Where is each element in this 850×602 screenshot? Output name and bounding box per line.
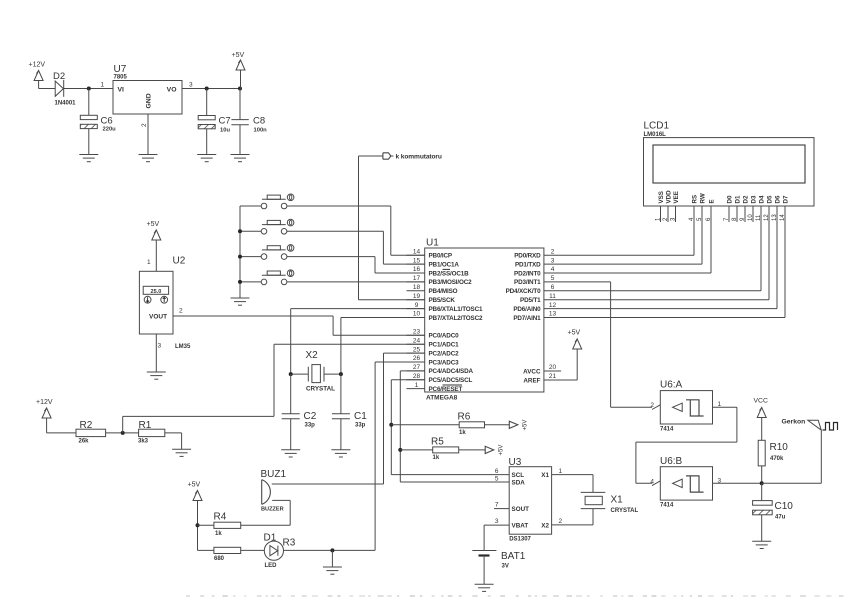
output port +5V (R5): [485, 445, 504, 456]
pin 16 PB2/SS/OC1B (U1 left stub): [407, 266, 470, 277]
pin 14 PB0/ICP (U1 left stub): [407, 248, 452, 259]
wire (U6:B pin3 to gerkon node): [713, 482, 762, 484]
ground (C10): [761, 540, 763, 542]
node (R6 tap): [389, 423, 393, 427]
pin 23 PC0/ADC0 (U1 left stub): [407, 329, 460, 340]
pin 12 PD6/AIN0 (U1 right stub): [513, 302, 562, 313]
svg-text:RW: RW: [700, 193, 707, 203]
pin 2 PD0/RXD (U1 right stub): [514, 248, 562, 259]
svg-text:10: 10: [748, 214, 754, 221]
svg-text:SOUT: SOUT: [512, 506, 530, 513]
svg-text:33p: 33p: [305, 423, 316, 429]
ground (C6): [88, 153, 90, 155]
svg-text:1k: 1k: [433, 455, 440, 461]
pin 1 PC6/RESET (U1 left stub): [407, 382, 463, 393]
wire (crystal to U3 X2): [592, 509, 594, 525]
wire (U3 X1 to crystal): [552, 474, 593, 476]
pin 20 AVCC (U1): [523, 364, 561, 375]
svg-text:D5: D5: [767, 195, 774, 203]
node (X2 right): [339, 372, 343, 376]
svg-text:3: 3: [158, 343, 162, 350]
ground (C7): [206, 153, 208, 155]
svg-text:C2: C2: [304, 411, 317, 422]
push button SW2: [261, 219, 294, 234]
regulator U7 7805: [113, 64, 182, 114]
node (R5 tap): [398, 448, 402, 452]
wire (SCL bus to U3): [391, 474, 509, 476]
pin 14 D7 (LCD1): [780, 195, 790, 222]
svg-text:1: 1: [559, 468, 563, 475]
pin 9 D2 (LCD1): [740, 195, 750, 222]
decorative: none: [186, 596, 844, 597]
wire (U2 pin3 to ground): [155, 334, 157, 372]
pin 13 D6 (LCD1): [772, 195, 782, 222]
power flag +5V (regulator output): [232, 52, 246, 89]
wire: [47, 432, 76, 434]
svg-text:PB0/ICP: PB0/ICP: [429, 253, 452, 260]
svg-text:R4: R4: [214, 512, 227, 523]
wire (SW1 to PB0): [287, 205, 391, 207]
svg-text:ATMEGA8: ATMEGA8: [426, 395, 458, 402]
pin 9 PB6/XTAL1/TOSC1 (U1 left stub): [407, 302, 484, 313]
wire (U6:A pin1 to U6:B pin4): [713, 406, 737, 408]
node (bus row3): [238, 255, 242, 259]
pin 13 PD7/AIN1 (U1 right stub): [513, 311, 562, 322]
svg-text:220u: 220u: [103, 127, 117, 133]
svg-text:PB3/MOSI/OC2: PB3/MOSI/OC2: [429, 279, 473, 286]
svg-text:VO: VO: [167, 87, 177, 94]
svg-text:U6:A: U6:A: [660, 380, 683, 391]
svg-text:1: 1: [147, 259, 151, 266]
svg-text:15: 15: [413, 257, 421, 264]
ground (C2): [290, 449, 292, 451]
wire (node to PC3/ADC3): [374, 362, 376, 550]
wire (LCD RS to PD0): [693, 222, 695, 255]
svg-text:BUZ1: BUZ1: [261, 469, 287, 480]
node (R10/C10/U6:B): [760, 481, 764, 485]
pin 12 D5 (LCD1): [764, 195, 774, 222]
svg-text:6: 6: [551, 284, 555, 291]
wire (+5V rail): [182, 88, 240, 90]
wire (SW3 to PB2): [287, 256, 375, 258]
pin 15 PB1/OC1A (U1 left stub): [407, 257, 460, 268]
svg-text:PC6/RESET: PC6/RESET: [429, 386, 463, 393]
svg-text:C7: C7: [219, 116, 231, 127]
svg-text:X2: X2: [541, 523, 549, 530]
svg-text:D7: D7: [783, 195, 790, 203]
svg-text:D0: D0: [727, 195, 734, 203]
pin 6 PD4/XCK/T0 (U1 right stub): [506, 284, 563, 295]
diode D2: [53, 71, 76, 107]
svg-text:VBAT: VBAT: [512, 523, 529, 530]
wire (LCD D6 to PD6): [776, 222, 778, 309]
wire (PB5/SCK to kommutator port): [358, 156, 360, 300]
svg-text:Gerkon: Gerkon: [782, 419, 806, 426]
svg-text:11: 11: [549, 293, 556, 300]
svg-text:R2: R2: [80, 420, 93, 431]
pin 7 SOUT stub U3: [494, 502, 509, 509]
svg-text:+5V: +5V: [147, 221, 160, 228]
svg-text:PC4/ADC4/SDA: PC4/ADC4/SDA: [429, 368, 474, 375]
wire (button left to bus): [240, 281, 261, 283]
output port +5V (R6): [509, 420, 528, 431]
svg-text:16: 16: [413, 266, 421, 273]
wire (node to gerkon input): [762, 482, 822, 484]
ground (C1): [340, 449, 342, 451]
svg-text:12: 12: [764, 214, 770, 221]
svg-text:LCD1: LCD1: [644, 121, 670, 132]
node (divider tap): [121, 431, 125, 435]
resistor R2: [76, 420, 106, 444]
resistor R4: [198, 512, 241, 537]
node (bus row4): [238, 280, 242, 284]
svg-text:11: 11: [756, 214, 762, 221]
svg-text:25: 25: [413, 346, 421, 353]
svg-text:AVCC: AVCC: [523, 368, 541, 375]
svg-text:PD5/T1: PD5/T1: [520, 297, 541, 304]
svg-text:AREF: AREF: [523, 377, 540, 384]
svg-text:PC2/ADC2: PC2/ADC2: [429, 350, 460, 357]
power flag VCC: [754, 398, 768, 441]
svg-text:PC5/ADC5/SCL: PC5/ADC5/SCL: [429, 377, 473, 384]
svg-text:BAT1: BAT1: [501, 551, 526, 562]
svg-text:BUZZER: BUZZER: [261, 507, 284, 513]
svg-text:2: 2: [559, 518, 563, 525]
svg-text:PD6/AIN0: PD6/AIN0: [513, 306, 541, 313]
wire: [106, 432, 139, 434]
pin 19 PB5/SCK (U1 left stub): [407, 293, 456, 304]
svg-text:17: 17: [413, 275, 421, 282]
svg-text:5: 5: [551, 275, 555, 282]
svg-text:14: 14: [780, 214, 786, 221]
svg-text:470k: 470k: [770, 456, 784, 462]
svg-text:100n: 100n: [254, 128, 268, 134]
node (+5V R4 tap): [196, 523, 200, 527]
wire (button left to bus): [240, 256, 261, 258]
capacitor C10: [753, 483, 794, 541]
svg-text:+5V: +5V: [188, 482, 201, 489]
svg-text:PB5/SCK: PB5/SCK: [429, 297, 456, 304]
svg-text:26: 26: [413, 355, 421, 362]
svg-text:2: 2: [141, 123, 148, 127]
svg-text:+5V: +5V: [568, 330, 581, 337]
svg-text:R1: R1: [139, 420, 152, 431]
svg-text:GND: GND: [146, 93, 153, 108]
buzzer BUZ1: [261, 469, 287, 513]
node (LED/ground/PC3): [330, 548, 334, 552]
ground (U2): [155, 371, 157, 373]
svg-text:4: 4: [551, 266, 555, 273]
wire (R4 to buzzer): [241, 524, 291, 526]
svg-text:1k: 1k: [459, 430, 466, 436]
capacitor C6: [80, 89, 116, 155]
svg-text:1k: 1k: [215, 531, 222, 537]
svg-text:19: 19: [413, 293, 421, 300]
pin 10 D3 (LCD1): [748, 195, 758, 222]
pin 1 VSS (LCD1): [655, 191, 665, 222]
wire (node to ground): [331, 550, 333, 567]
svg-text:3: 3: [495, 518, 499, 525]
svg-text:13: 13: [549, 311, 557, 318]
display LCD1 LM016L: [644, 121, 815, 207]
node (C8/+5V): [238, 87, 242, 91]
svg-text:U3: U3: [509, 457, 522, 468]
push button SW4: [261, 270, 294, 285]
capacitor C7: [198, 89, 230, 155]
svg-text:X2: X2: [306, 350, 319, 361]
wire (LED to node): [284, 549, 376, 551]
svg-text:3k3: 3k3: [138, 438, 149, 444]
wire (R1 to ground): [165, 432, 182, 434]
capacitor C8: [231, 89, 267, 155]
svg-text:PC0/ADC0: PC0/ADC0: [429, 333, 460, 340]
svg-text:47u: 47u: [775, 515, 786, 521]
pin 7 D0 (LCD1): [724, 195, 734, 222]
wire (PC5/SCL down): [391, 379, 424, 381]
push button SW3: [261, 245, 294, 260]
push button SW1: [261, 194, 294, 209]
power flag +12V (input): [29, 62, 46, 89]
wire: [39, 88, 56, 90]
svg-text:U6:B: U6:B: [660, 456, 683, 467]
svg-text:X1: X1: [611, 495, 624, 506]
resistor R3 680: [198, 547, 265, 562]
power flag +12V (divider): [36, 399, 53, 433]
svg-text:D4: D4: [759, 195, 766, 203]
svg-text:C10: C10: [775, 501, 794, 512]
inverter U6:B 7414: [660, 456, 713, 509]
svg-text:680: 680: [214, 556, 225, 562]
wire (SDA bus to U3): [400, 481, 509, 483]
wire (LCD D7 to PD7): [784, 222, 786, 318]
pin 26 PC3/ADC3 (U1 left stub): [407, 355, 460, 366]
svg-text:PD0/RXD: PD0/RXD: [514, 253, 541, 260]
ground (R1): [181, 448, 183, 450]
svg-text:+12V: +12V: [29, 62, 46, 69]
svg-text:14: 14: [413, 248, 421, 255]
svg-text:R3: R3: [283, 537, 296, 548]
svg-text:LED: LED: [265, 563, 278, 569]
svg-text:3: 3: [189, 82, 193, 89]
svg-text:CRYSTAL: CRYSTAL: [306, 386, 335, 393]
ground (LED): [331, 566, 333, 568]
wire (PD3/INT1 to U6:A output): [563, 281, 611, 283]
svg-text:C1: C1: [354, 411, 367, 422]
svg-text:23: 23: [413, 329, 421, 336]
svg-text:X1: X1: [541, 472, 549, 479]
svg-text:VI: VI: [118, 87, 125, 94]
svg-text:1N4001: 1N4001: [55, 101, 77, 107]
svg-text:2: 2: [551, 248, 555, 255]
svg-text:PB1/OC1A: PB1/OC1A: [429, 261, 460, 268]
svg-text:13: 13: [772, 214, 778, 221]
resistor R1: [138, 420, 165, 444]
pin 11 PD5/T1 (U1 right stub): [520, 293, 562, 304]
wire (LM35 VOUT to PC0/ADC0): [173, 315, 333, 317]
pin 10 PB7/XTAL2/TOSC2 (U1 left stub): [407, 311, 484, 322]
wire (button left to bus): [240, 230, 261, 232]
svg-text:PD3/INT1: PD3/INT1: [514, 279, 541, 286]
node (D2/C6/U7 junction): [87, 87, 91, 91]
svg-text:D1: D1: [735, 195, 742, 203]
svg-text:D6: D6: [775, 195, 782, 203]
svg-text:U2: U2: [173, 256, 186, 267]
svg-text:U1: U1: [426, 238, 439, 249]
pin 4 PD2/INT0 (U1 right stub): [514, 266, 562, 277]
svg-text:C6: C6: [101, 116, 113, 127]
svg-text:PB2/SS/OC1B: PB2/SS/OC1B: [429, 270, 470, 277]
wire: [64, 88, 113, 90]
svg-text:27: 27: [413, 364, 421, 371]
battery BAT1: [472, 551, 525, 585]
pin 21 AREF (U1): [523, 373, 577, 384]
svg-text:PB7/XTAL2/TOSC2: PB7/XTAL2/TOSC2: [429, 315, 484, 322]
pin 28 PC5/ADC5/SCL (U1 left stub): [407, 373, 473, 384]
svg-text:R5: R5: [431, 436, 444, 447]
pin 24 PC1/ADC1 (U1 left stub): [407, 337, 460, 348]
svg-text:LM35: LM35: [175, 344, 191, 350]
input port "Gerkon": [782, 419, 838, 431]
ground (BAT1): [483, 583, 485, 585]
svg-text:R10: R10: [770, 442, 789, 453]
svg-text:PD1/TXD: PD1/TXD: [515, 261, 541, 268]
rtc U3 DS1307: [509, 457, 552, 543]
crystal X1: [581, 492, 639, 513]
svg-text:3: 3: [551, 257, 555, 264]
pin 3 PD1/TXD (U1 right stub): [515, 257, 563, 268]
svg-text:PD7/AIN1: PD7/AIN1: [513, 315, 541, 322]
svg-text:D3: D3: [751, 195, 758, 203]
svg-text:PB6/XTAL1/TOSC1: PB6/XTAL1/TOSC1: [429, 306, 484, 313]
resistor R5: [400, 436, 485, 461]
svg-text:SCL: SCL: [512, 472, 525, 479]
wire (VBAT to battery): [484, 524, 509, 526]
svg-text:+12V: +12V: [36, 399, 53, 406]
svg-text:1: 1: [101, 82, 105, 89]
mcu U1 ATMEGA8: [425, 238, 544, 402]
wire (LCD E to PD2): [710, 222, 712, 273]
ground (C8): [239, 153, 241, 155]
pin 8 D1 (LCD1): [732, 195, 742, 222]
svg-text:7414: 7414: [660, 503, 674, 509]
power flag +5V (AREF): [568, 330, 582, 380]
svg-text:10u: 10u: [220, 128, 230, 134]
svg-text:5: 5: [495, 476, 499, 483]
pin 17 PB3/MOSI/OC2 (U1 left stub): [407, 275, 473, 286]
svg-text:+5V: +5V: [523, 420, 529, 431]
wire (SW4 to PB3): [287, 281, 425, 283]
svg-text:DS1307: DS1307: [509, 536, 531, 542]
wire (button left to bus): [240, 205, 261, 207]
wire (U7 GND): [147, 114, 149, 155]
led D1: [264, 532, 296, 569]
capacitor C1: [332, 374, 367, 450]
crystal X2: [291, 350, 341, 393]
svg-text:28: 28: [413, 373, 421, 380]
wire (button ground bus): [239, 206, 241, 298]
pin 6 E (LCD1): [706, 199, 716, 222]
svg-text:33p: 33p: [355, 423, 366, 429]
svg-text:20: 20: [549, 364, 557, 371]
wire (PC4/SDA down): [400, 370, 424, 372]
svg-text:VOUT: VOUT: [149, 313, 167, 320]
wire (LCD D4 to PD4): [760, 222, 762, 291]
svg-text:D2: D2: [743, 195, 750, 203]
power flag +5V (LM35): [147, 221, 161, 271]
svg-text:7: 7: [495, 502, 499, 509]
svg-text:9: 9: [415, 302, 419, 309]
svg-text:R6: R6: [458, 412, 471, 423]
svg-text:C8: C8: [253, 116, 265, 127]
svg-text:E: E: [709, 199, 716, 203]
pin 27 PC4/ADC4/SDA (U1 left stub): [407, 364, 474, 375]
svg-text:10: 10: [413, 311, 421, 318]
svg-text:3V: 3V: [502, 564, 509, 570]
svg-text:6: 6: [495, 468, 499, 475]
svg-text:12: 12: [549, 302, 557, 309]
pin 25 PC2/ADC2 (U1 left stub): [407, 346, 460, 357]
pin 5 RW (LCD1): [697, 193, 707, 222]
svg-text:24: 24: [413, 337, 421, 344]
svg-text:+5V: +5V: [232, 52, 245, 59]
output port "k kommutatoru": [383, 153, 442, 161]
svg-text:2: 2: [179, 308, 183, 315]
svg-text:VCC: VCC: [754, 398, 768, 405]
svg-text:k kommutatoru: k kommutatoru: [396, 154, 442, 161]
wire (PB6/XTAL1 to X2): [291, 308, 425, 310]
wire (divider tap to PC1/ADC1): [122, 416, 124, 433]
svg-text:7805: 7805: [114, 75, 128, 81]
svg-text:PC3/ADC3: PC3/ADC3: [429, 359, 460, 366]
svg-text:PD4/XCK/T0: PD4/XCK/T0: [506, 288, 542, 295]
svg-text:PC1/ADC1: PC1/ADC1: [429, 342, 460, 349]
svg-text:RS: RS: [692, 195, 699, 204]
svg-text:VSS: VSS: [658, 191, 665, 203]
pin 5 PD3/INT1 (U1 right stub): [514, 275, 562, 286]
svg-text:VEE: VEE: [673, 191, 680, 203]
svg-text:1: 1: [415, 382, 419, 389]
svg-text:PB4/MISO: PB4/MISO: [429, 288, 458, 295]
pin 18 PB4/MISO (U1 left stub): [407, 284, 458, 295]
wire (LCD RW to PD1): [701, 222, 703, 264]
node (X2 left): [289, 372, 293, 376]
svg-text:7414: 7414: [660, 426, 674, 432]
pin 2 VDD (LCD1): [663, 190, 673, 222]
ground (buttons): [239, 297, 241, 299]
svg-text:26k: 26k: [79, 438, 90, 444]
resistor R6: [391, 412, 509, 436]
svg-text:+5V: +5V: [499, 445, 505, 456]
svg-text:SDA: SDA: [512, 480, 526, 487]
wire (buzzer to PC2/ADC2): [272, 483, 384, 485]
capacitor C2: [282, 374, 317, 450]
ground (U7): [147, 153, 149, 155]
wire (PB7/XTAL2 to X2): [341, 317, 425, 319]
inverter U6:A 7414: [660, 380, 713, 433]
pin 11 D4 (LCD1): [756, 195, 766, 222]
svg-text:25.0: 25.0: [150, 289, 161, 295]
power flag +5V (buzzer/LED): [188, 482, 203, 551]
pin 4 RS (LCD1): [689, 195, 699, 222]
pin 3 VEE (LCD1): [670, 191, 680, 222]
wire (LCD D5 to PD5): [768, 222, 770, 300]
node (C7): [205, 87, 209, 91]
svg-text:U7: U7: [114, 64, 127, 75]
svg-text:CRYSTAL: CRYSTAL: [611, 508, 639, 514]
svg-text:21: 21: [549, 373, 557, 380]
resistor R10: [758, 440, 788, 483]
node (bus row2): [238, 229, 242, 233]
